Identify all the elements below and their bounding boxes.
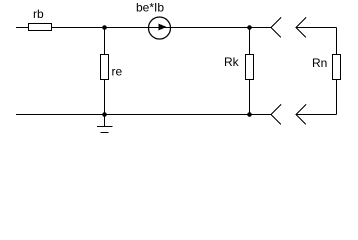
resistor Rn	[332, 54, 341, 80]
connector fork top	[271, 18, 281, 38]
svg-text:be*Ib: be*Ib	[136, 1, 164, 15]
current source arrow	[159, 24, 167, 31]
wire Rk branch vertical	[249, 28, 251, 115]
wire bottom rail	[16, 114, 271, 116]
current source U1 be*Ib circle	[149, 17, 171, 39]
wire arrow top to corner	[296, 27, 337, 29]
node B junction dot	[102, 25, 107, 30]
wire Rn branch vertical	[336, 28, 338, 115]
resistor re	[100, 54, 109, 80]
svg-text:re: re	[112, 65, 123, 79]
connector arrow bottom	[296, 105, 306, 125]
wire arrow bottom to corner	[296, 114, 337, 116]
resistor rb	[28, 23, 52, 31]
connector arrow top	[296, 18, 306, 38]
wire re branch vertical	[104, 28, 106, 115]
svg-text:rb: rb	[33, 7, 44, 21]
resistor Rk	[245, 54, 254, 80]
connector fork bottom	[271, 105, 281, 125]
svg-text:Rk: Rk	[224, 55, 240, 69]
wire top rail	[16, 27, 271, 29]
node ground junction dot	[102, 112, 107, 117]
node Rk bottom junction dot	[247, 112, 252, 117]
ground	[97, 115, 113, 133]
svg-text:Rn: Rn	[312, 56, 327, 70]
node top of Rk junction dot	[247, 25, 252, 30]
